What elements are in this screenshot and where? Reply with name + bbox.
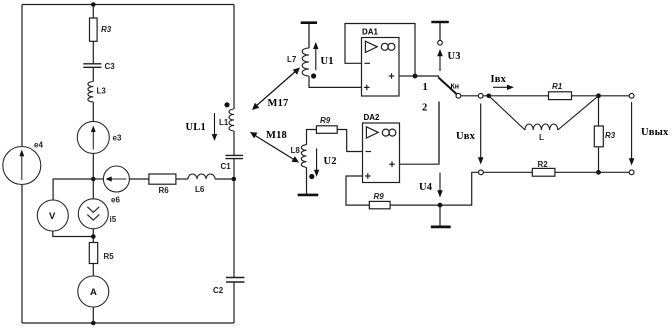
svg-text:L1: L1 [219,118,229,127]
svg-text:UL1: UL1 [186,122,206,133]
mutual coupling M18 arrow [250,132,299,163]
wire e6 to R6 [129,178,149,180]
svg-text:U3: U3 [448,51,461,62]
wire top rail left section [22,4,234,6]
wire e3 to hub [92,153,94,179]
wire V bottom [53,231,94,237]
node open terminal under bar [438,40,443,45]
wire R3 branch top [92,5,94,19]
wire hub to i5 [92,179,94,199]
capacitor C1 [225,155,243,158]
node open terminal output bottom [629,170,634,175]
wire R1 to node [572,95,599,97]
svg-text:U2: U2 [324,156,337,167]
wire U4 junction to bottom terminal [440,172,479,205]
inductor L1 [229,109,234,131]
wire R9 to U4 junction [390,204,440,206]
svg-text:U4: U4 [419,182,433,193]
voltmeter V [37,200,68,231]
node DA1 output junction [413,74,418,79]
wire top rail to R1 [483,95,548,97]
wire DA2 output to switch position 2 [400,102,440,165]
wire node to output terminal bottom [599,171,630,173]
label U3 with arrow [437,49,443,71]
wire L6 to rail [215,178,234,180]
svg-text:e3: e3 [113,134,122,143]
inductor L6 [188,174,215,179]
wire switch to input terminal [461,95,479,97]
svg-text:R6: R6 [159,186,170,195]
wire DA1 output [399,75,415,77]
resistor R6 [149,174,176,184]
source e6 [103,166,129,192]
node junction top of R3 branch [91,2,96,7]
node junction R1 right [596,93,601,98]
svg-text:DA2: DA2 [364,113,381,122]
svg-text:Uвх: Uвх [456,131,476,142]
svg-text:Iвх: Iвх [491,74,507,85]
inductor L [525,124,558,130]
svg-text:C2: C2 [213,286,224,295]
svg-text:R5: R5 [104,252,115,261]
wire hub to V branch [53,179,93,200]
terminal bar above U3 [431,22,449,40]
ground below L8 [298,194,319,197]
wire left rail lower [21,185,23,324]
resistor R1 [549,92,572,100]
capacitor C3 [83,64,101,68]
node input terminal top [478,93,483,98]
node polarity dot L1 [224,102,229,107]
node polarity dot L7 [311,73,316,78]
wire diagonal left to L [489,96,525,130]
wire middle rail top [233,5,235,110]
resistor R2 [532,168,555,176]
wire DA2 plus input feedback [346,176,369,205]
resistor R3 [90,18,98,41]
resistor R3 right [594,126,603,147]
wire hub to e6 [93,178,103,180]
svg-text:R9: R9 [320,116,331,125]
svg-text:M17: M17 [268,98,289,109]
wire A to bottom rail [92,307,94,323]
node junction Ivx [487,94,492,99]
svg-text:DA1: DA1 [362,28,379,37]
resistor R9 top [316,126,337,134]
wire diagonal L to node [558,96,599,130]
source e3 [77,121,109,153]
capacitor C2 [226,278,245,283]
svg-text:R2: R2 [538,160,549,169]
wire bottom rail [22,322,234,324]
svg-text:L: L [539,133,544,142]
svg-text:V: V [49,211,56,222]
node hub junction [91,177,96,182]
wire L3 to e3 [92,102,94,121]
svg-text:M18: M18 [266,130,287,141]
svg-text:R3: R3 [605,131,616,140]
mutual coupling M17 arrow [252,68,300,111]
inductor L7 [302,48,309,76]
node junction below i5 [91,234,96,239]
node junction bottom right [596,170,601,175]
wire R6 to L6 [176,178,188,180]
svg-text:L3: L3 [97,87,107,96]
svg-text:R3: R3 [101,25,112,34]
wire bottom rail to R2 [483,171,532,173]
svg-text:A: A [90,287,97,298]
inductor L3 [88,82,93,103]
wire R3 to bottom rail [598,147,600,173]
svg-text:e6: e6 [111,196,120,205]
wire L8 top to R9 to DA2 minus input [307,130,363,152]
wire R5 to A [92,264,94,277]
resistor R9 bottom [369,201,390,208]
label U2 with arrow [314,148,319,176]
wire R2 to node [555,171,599,173]
source e4 [3,147,41,185]
svg-text:C3: C3 [105,62,116,71]
svg-text:R9: R9 [374,192,385,201]
wire i5 to junction [92,229,94,243]
switch position 2 contact wire [438,102,440,163]
wire R3 to C3 [92,41,94,63]
svg-text:Кн: Кн [451,84,460,91]
wire C2 to bottom rail [233,282,235,323]
node junction bottom rail [91,321,96,326]
svg-text:C1: C1 [221,162,232,171]
wire C1 to junction [233,159,235,179]
wire node to R3 right [598,96,600,126]
node input terminal bottom [479,170,484,175]
current source i5 [78,199,108,229]
wire left rail upper [21,5,23,147]
svg-text:U1: U1 [321,56,334,67]
wire L1 to C1 [233,131,235,155]
node switch common terminal [456,93,461,98]
svg-text:Uвых: Uвых [641,127,669,138]
svg-text:1: 1 [423,82,428,93]
node polarity dot L8 [309,174,314,179]
resistor R5 [89,243,97,264]
svg-text:L6: L6 [195,185,205,194]
node U4 junction [438,203,443,208]
wire DA1 output to switch pole 1 [415,76,438,78]
wire node to output terminal top [599,95,630,97]
svg-text:2: 2 [422,103,427,114]
wire L8 to ground [306,167,308,194]
inductor L8 [301,145,306,168]
label U1 with arrow [313,42,318,70]
switch Kn lever [439,78,457,95]
wire DA1 feedback loop [345,24,415,77]
svg-text:L8: L8 [291,146,301,155]
terminal bar above L7 [301,23,317,48]
op-amp DA2 [363,123,400,183]
svg-text:L7: L7 [287,55,297,64]
node junction rail [232,177,237,182]
ground below U4 junction [439,205,441,226]
wire L7 to DA1 plus input [309,76,362,87]
svg-text:R1: R1 [552,82,563,91]
svg-text:i5: i5 [110,215,117,224]
svg-text:e4: e4 [34,141,43,150]
ammeter A [78,276,109,307]
wire rail to C2 [233,179,235,278]
op-amp DA1 [362,38,400,97]
node open terminal output top [629,93,634,98]
wire C3 to L3 [92,67,94,81]
